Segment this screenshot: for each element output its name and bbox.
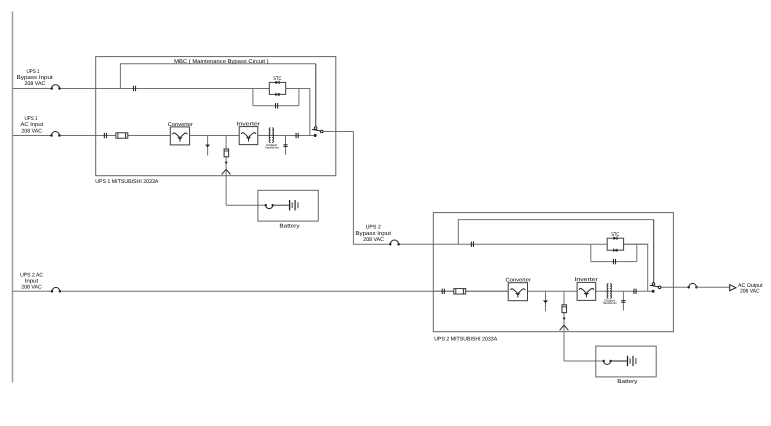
svg-text:Converter: Converter — [168, 122, 194, 128]
svg-text:208 VAC: 208 VAC — [24, 81, 45, 87]
svg-text:208 VAC: 208 VAC — [21, 285, 42, 291]
svg-text:Input: Input — [25, 278, 39, 284]
svg-text:Transformer: Transformer — [602, 301, 617, 305]
svg-text:AC Input: AC Input — [21, 122, 44, 128]
svg-text:UPS 2 MITSUBISHI 2033A: UPS 2 MITSUBISHI 2033A — [434, 337, 497, 343]
svg-text:208 VAC: 208 VAC — [740, 289, 760, 295]
svg-text:Converter: Converter — [506, 278, 532, 284]
svg-text:Battery: Battery — [617, 379, 638, 385]
svg-text:Bypass Input: Bypass Input — [17, 75, 54, 81]
svg-text:Inverter: Inverter — [574, 277, 598, 283]
svg-text:208 VAC: 208 VAC — [21, 128, 42, 134]
svg-text:UPS 1: UPS 1 — [27, 69, 40, 75]
svg-text:UPS 1: UPS 1 — [25, 116, 38, 122]
svg-text:MBC ( Maintenance Bypass Circu: MBC ( Maintenance Bypass Circuit ) — [174, 59, 269, 65]
svg-text:UPS 2: UPS 2 — [366, 225, 381, 231]
svg-text:Battery: Battery — [279, 223, 300, 229]
svg-text:Transformer: Transformer — [264, 145, 279, 149]
svg-text:208 VAC: 208 VAC — [363, 237, 384, 243]
svg-text:STC: STC — [611, 232, 619, 238]
svg-text:Inverter: Inverter — [237, 121, 261, 127]
svg-text:UPS 1 MITSUBISHI 2033A: UPS 1 MITSUBISHI 2033A — [95, 179, 159, 185]
svg-text:STC: STC — [273, 76, 281, 82]
